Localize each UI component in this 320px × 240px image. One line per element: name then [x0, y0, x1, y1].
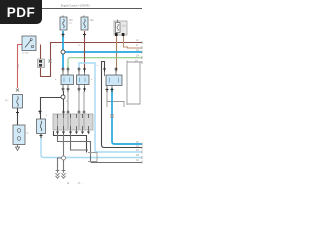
connector pin T etcs top	[39, 110, 42, 114]
connector pin T etcs bottom	[40, 134, 43, 138]
connector pin T link	[16, 111, 19, 115]
PDF badge	[0, 0, 42, 24]
connector pin T inj2a	[78, 68, 81, 72]
svg-text:- 8 -: - 8 -	[76, 181, 81, 185]
connector pin T inj2 bottom a	[78, 88, 81, 92]
wire cyan bus	[63, 31, 142, 52]
wire cyan coil out	[112, 88, 142, 144]
fuse F2	[81, 17, 88, 30]
ETCS fuse box	[37, 119, 46, 134]
ground arrow 1	[56, 170, 60, 178]
wire red from switch	[18, 45, 23, 89]
svg-text:15A: 15A	[69, 19, 74, 22]
wire maroon U to relay connector	[41, 45, 51, 77]
gray shield bottom bracket	[107, 102, 124, 108]
tiny wire code labels	[18, 45, 99, 117]
fuse block F3	[114, 21, 127, 35]
header rule	[7, 8, 142, 10]
ecu box	[53, 114, 93, 130]
connector pin T inj1 bottom b	[67, 88, 70, 92]
svg-text:Engine Control <1GR-FE>: Engine Control <1GR-FE>	[61, 5, 91, 8]
svg-text:1G: 1G	[136, 49, 139, 52]
connector pin T inj1 bottom a	[62, 88, 65, 92]
injector box 1	[61, 75, 74, 85]
node junction mid	[61, 95, 65, 99]
connector pin T coil bottom a	[106, 88, 109, 92]
svg-text:EFI: EFI	[5, 100, 9, 102]
connector pin T f2	[83, 33, 86, 37]
wire pale blue etcs	[41, 137, 142, 158]
node junction ground	[62, 156, 66, 160]
connector pin T inj1a	[62, 68, 65, 72]
wire gray shield right	[127, 61, 142, 106]
gray bracket shield2	[88, 153, 97, 162]
ground arrow 2	[62, 170, 66, 178]
wire black ecu1	[54, 131, 87, 153]
ground triangle left	[16, 145, 20, 151]
wire tan coil feed	[116, 36, 118, 71]
svg-text:PDF: PDF	[7, 5, 36, 20]
wire gray injector drops	[68, 91, 84, 114]
connector pin T coil a	[103, 68, 106, 72]
svg-text:IE: IE	[67, 182, 70, 185]
relay connector block	[38, 59, 45, 68]
wire green bus	[68, 58, 142, 68]
svg-text:1H: 1H	[136, 55, 139, 58]
right edge wire labels	[135, 39, 139, 162]
wire cyan drop injector	[62, 52, 64, 68]
connector pin T f1	[62, 33, 65, 37]
connector pin T inj2b	[83, 68, 86, 72]
wire maroon injector2	[84, 31, 86, 68]
wire black injector drop	[41, 91, 64, 119]
svg-text:R-B: R-B	[18, 64, 20, 68]
connector X cyan	[111, 115, 114, 118]
wire maroon bus	[51, 43, 143, 63]
svg-text:1B: 1B	[136, 154, 139, 157]
connector X red	[16, 89, 19, 92]
ecu pin arrows bottom	[56, 131, 90, 133]
svg-text:1C: 1C	[136, 159, 139, 162]
ecu pin arrows top	[62, 111, 86, 113]
svg-text:10A: 10A	[90, 19, 95, 22]
svg-text:1A: 1A	[136, 149, 139, 152]
connector pin T inj2 bottom b	[83, 88, 86, 92]
wire pale blue coil sense	[79, 63, 142, 152]
ignition coil box	[106, 75, 122, 86]
fuse F1	[60, 17, 67, 30]
svg-text:1I: 1I	[136, 44, 138, 47]
wire black fusible link	[17, 108, 19, 125]
svg-text:IG SW: IG SW	[22, 53, 29, 55]
fusible link box	[13, 95, 23, 109]
wire black drain	[102, 62, 143, 148]
circuit opening relay box	[13, 125, 25, 145]
wire gray coil stubs	[106, 91, 108, 102]
injector box 2	[77, 75, 90, 85]
wire gray ground net	[58, 132, 64, 170]
wire tan bus	[124, 36, 143, 48]
switch box S1	[22, 36, 36, 51]
connector X maroon	[49, 60, 52, 63]
wire gray ecu2	[58, 132, 143, 163]
connector pin T coil bottom b	[111, 88, 114, 92]
connector pin T inj1b	[67, 68, 70, 72]
node junction top	[61, 50, 65, 54]
connector pin T coil b	[115, 68, 118, 72]
svg-text:1K: 1K	[135, 60, 138, 63]
